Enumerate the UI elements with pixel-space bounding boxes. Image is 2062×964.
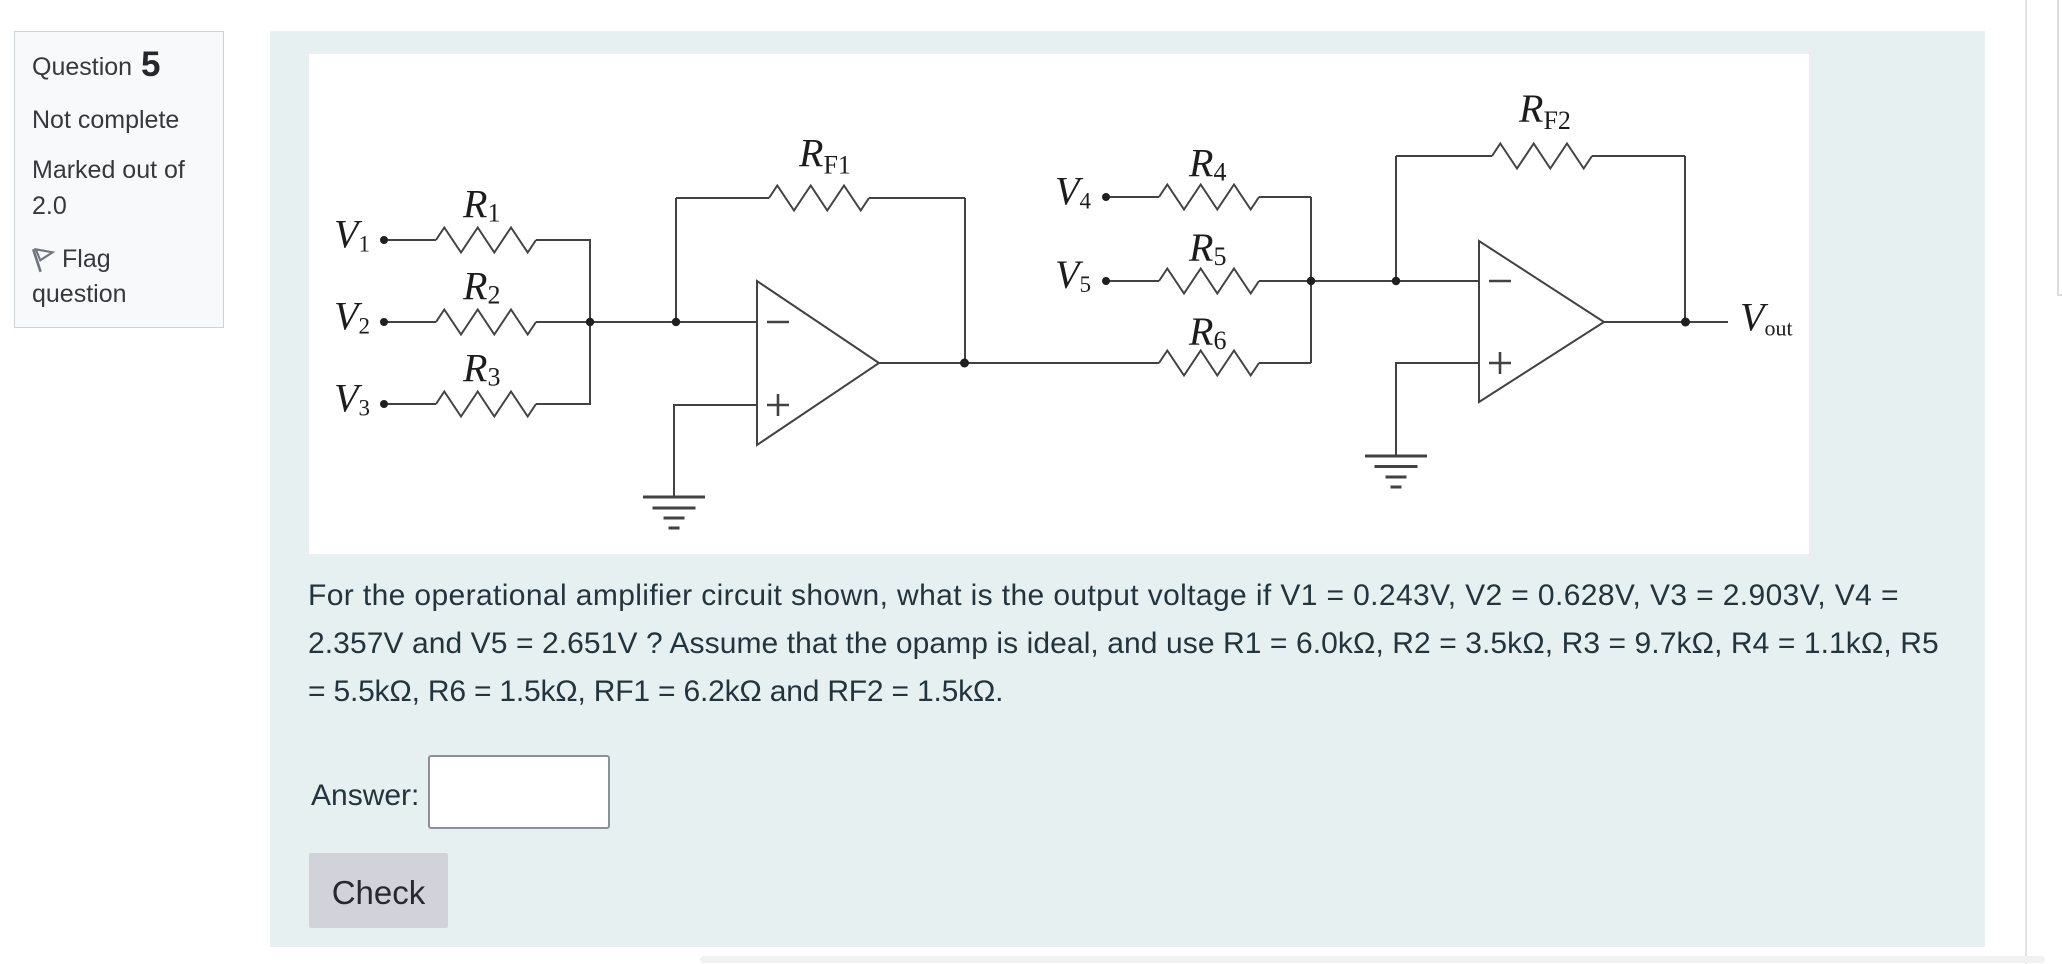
teal question area <box>270 31 1985 947</box>
wire RF1 right drop to output node C <box>964 198 966 363</box>
check button <box>309 853 448 928</box>
wire node D to node E <box>1311 280 1396 282</box>
op-amp U1 <box>757 281 879 445</box>
U1 minus sign <box>767 321 789 324</box>
op-amp U2 <box>1479 241 1604 402</box>
wire bus 2 vertical <box>1310 197 1312 363</box>
wire V4 to R4 <box>1106 196 1159 198</box>
wire RF1 left rail <box>676 197 769 199</box>
wire node B to op-amp U1 inverting input <box>676 321 757 323</box>
resistor R3 <box>436 392 536 417</box>
question paragraph <box>308 572 2028 716</box>
svg-text:V4: V4 <box>1055 169 1091 214</box>
svg-text:R5: R5 <box>1188 225 1226 271</box>
node A junction dot <box>586 318 594 326</box>
svg-text:RF1: RF1 <box>798 131 851 180</box>
node V4 terminal dot <box>1102 193 1110 201</box>
node V3 terminal dot <box>380 400 388 408</box>
node C junction dot <box>960 359 969 368</box>
svg-text:RF2: RF2 <box>1518 86 1571 135</box>
faint bottom scrollbar <box>700 956 2045 963</box>
svg-text:R1: R1 <box>462 182 500 228</box>
resistor R4 <box>1159 185 1259 210</box>
node B junction dot <box>672 318 680 326</box>
wire R5 to bus 2 <box>1259 280 1311 282</box>
svg-text:V5: V5 <box>1055 252 1091 297</box>
ground GND2 <box>1365 456 1427 487</box>
wire RF2 left branch <box>1395 156 1397 281</box>
wire R1 to summing bus <box>536 239 591 241</box>
resistor R5 <box>1159 269 1259 294</box>
wire V2 to R2 <box>384 321 436 323</box>
ground GND1 <box>643 497 705 528</box>
resistor R6 <box>1159 351 1259 376</box>
wire V5 to R5 <box>1106 280 1159 282</box>
node E junction dot <box>1392 277 1400 285</box>
U2 minus sign <box>1489 280 1511 283</box>
answer row <box>311 779 419 813</box>
flag icon <box>30 246 58 276</box>
wire node E to op-amp U2 inverting input <box>1396 280 1479 282</box>
resistor R1 <box>436 228 536 253</box>
wire RF1 left branch <box>675 198 677 322</box>
node D junction dot <box>1307 277 1315 285</box>
wire U1 non-inverting input to ground <box>674 405 757 497</box>
svg-text:V3: V3 <box>334 376 370 421</box>
wire R6 to bus 2 <box>1259 362 1311 364</box>
wire R4 to bus 2 <box>1259 196 1311 198</box>
wire U2 output to node F <box>1604 321 1685 323</box>
node V5 terminal dot <box>1102 277 1110 285</box>
node F junction dot <box>1681 318 1690 327</box>
wire RF2 left rail <box>1396 155 1492 157</box>
resistor RF1 <box>769 186 869 211</box>
node V2 terminal dot <box>380 318 388 326</box>
svg-text:V1: V1 <box>334 212 370 257</box>
svg-text:R4: R4 <box>1188 141 1226 187</box>
right page chrome <box>2025 0 2027 964</box>
wire node C to R6 <box>964 362 1159 364</box>
white circuit image panel <box>309 54 1809 554</box>
U1 plus sign <box>767 394 789 416</box>
wire summing bus vertical <box>589 240 591 404</box>
question info box <box>14 31 224 328</box>
wire V1 to R1 <box>384 239 436 241</box>
wire R3 to summing bus <box>536 403 591 405</box>
wire U2 non-inverting input to ground <box>1396 363 1479 456</box>
svg-text:R6: R6 <box>1188 309 1226 355</box>
U2 plus sign <box>1489 352 1511 374</box>
wire node F to Vout terminal <box>1685 321 1728 323</box>
node V1 terminal dot <box>380 236 388 244</box>
svg-text:Vout: Vout <box>1740 295 1793 341</box>
wire R2 to summing bus <box>536 321 591 323</box>
wire RF1 right rail <box>869 197 965 199</box>
svg-text:V2: V2 <box>334 294 370 339</box>
wire V3 to R3 <box>384 403 436 405</box>
resistor R2 <box>436 310 536 335</box>
svg-text:R3: R3 <box>462 346 500 392</box>
wire RF2 right drop to output node F <box>1684 156 1686 322</box>
wire node A to node B <box>590 321 676 323</box>
resistor RF2 <box>1492 144 1592 169</box>
svg-text:R2: R2 <box>462 264 500 310</box>
wire RF2 right rail <box>1592 155 1685 157</box>
wire U1 output to node C <box>879 362 964 364</box>
